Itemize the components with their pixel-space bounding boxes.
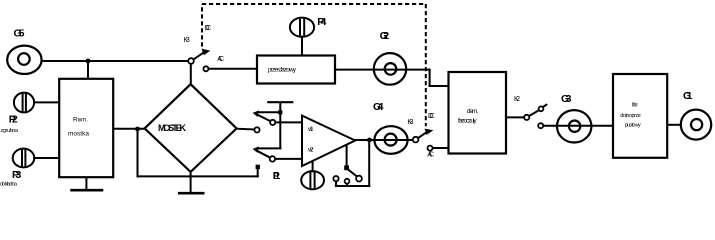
svg-text:P3: P3	[12, 169, 21, 181]
svg-text:w2: w2	[307, 147, 314, 154]
svg-text:pustowy: pustowy	[625, 123, 641, 129]
svg-text:AC: AC	[427, 152, 434, 159]
svg-text:filtr: filtr	[632, 103, 638, 109]
svg-text:K3: K3	[184, 37, 190, 44]
svg-text:MOSTEK: MOSTEK	[158, 123, 187, 133]
svg-text:w1: w1	[307, 126, 314, 133]
svg-text:DC: DC	[205, 25, 212, 32]
svg-text:K3: K3	[407, 119, 413, 126]
svg-text:DC: DC	[428, 113, 435, 120]
svg-text:G2: G2	[380, 30, 390, 42]
svg-text:P4: P4	[317, 16, 326, 28]
svg-text:K2: K2	[514, 96, 520, 103]
svg-text:dolnoprze: dolnoprze	[620, 113, 641, 119]
svg-text:przes.fazowy: przes.fazowy	[268, 67, 297, 74]
svg-text:G4: G4	[373, 101, 384, 113]
svg-text:dem.: dem.	[467, 108, 479, 115]
svg-text:G1: G1	[683, 90, 693, 102]
svg-text:P2: P2	[9, 114, 18, 126]
svg-text:G3: G3	[561, 93, 572, 105]
svg-text:P1: P1	[273, 170, 281, 182]
svg-text:AC: AC	[217, 56, 224, 63]
svg-text:Rwn.: Rwn.	[73, 117, 88, 124]
svg-text:G5: G5	[14, 28, 25, 40]
svg-text:fazoczuly: fazoczuly	[458, 118, 477, 125]
svg-text:mostka: mostka	[68, 131, 89, 138]
svg-text:dokładna: dokładna	[0, 182, 18, 188]
svg-text:zgrubna: zgrubna	[1, 128, 19, 134]
